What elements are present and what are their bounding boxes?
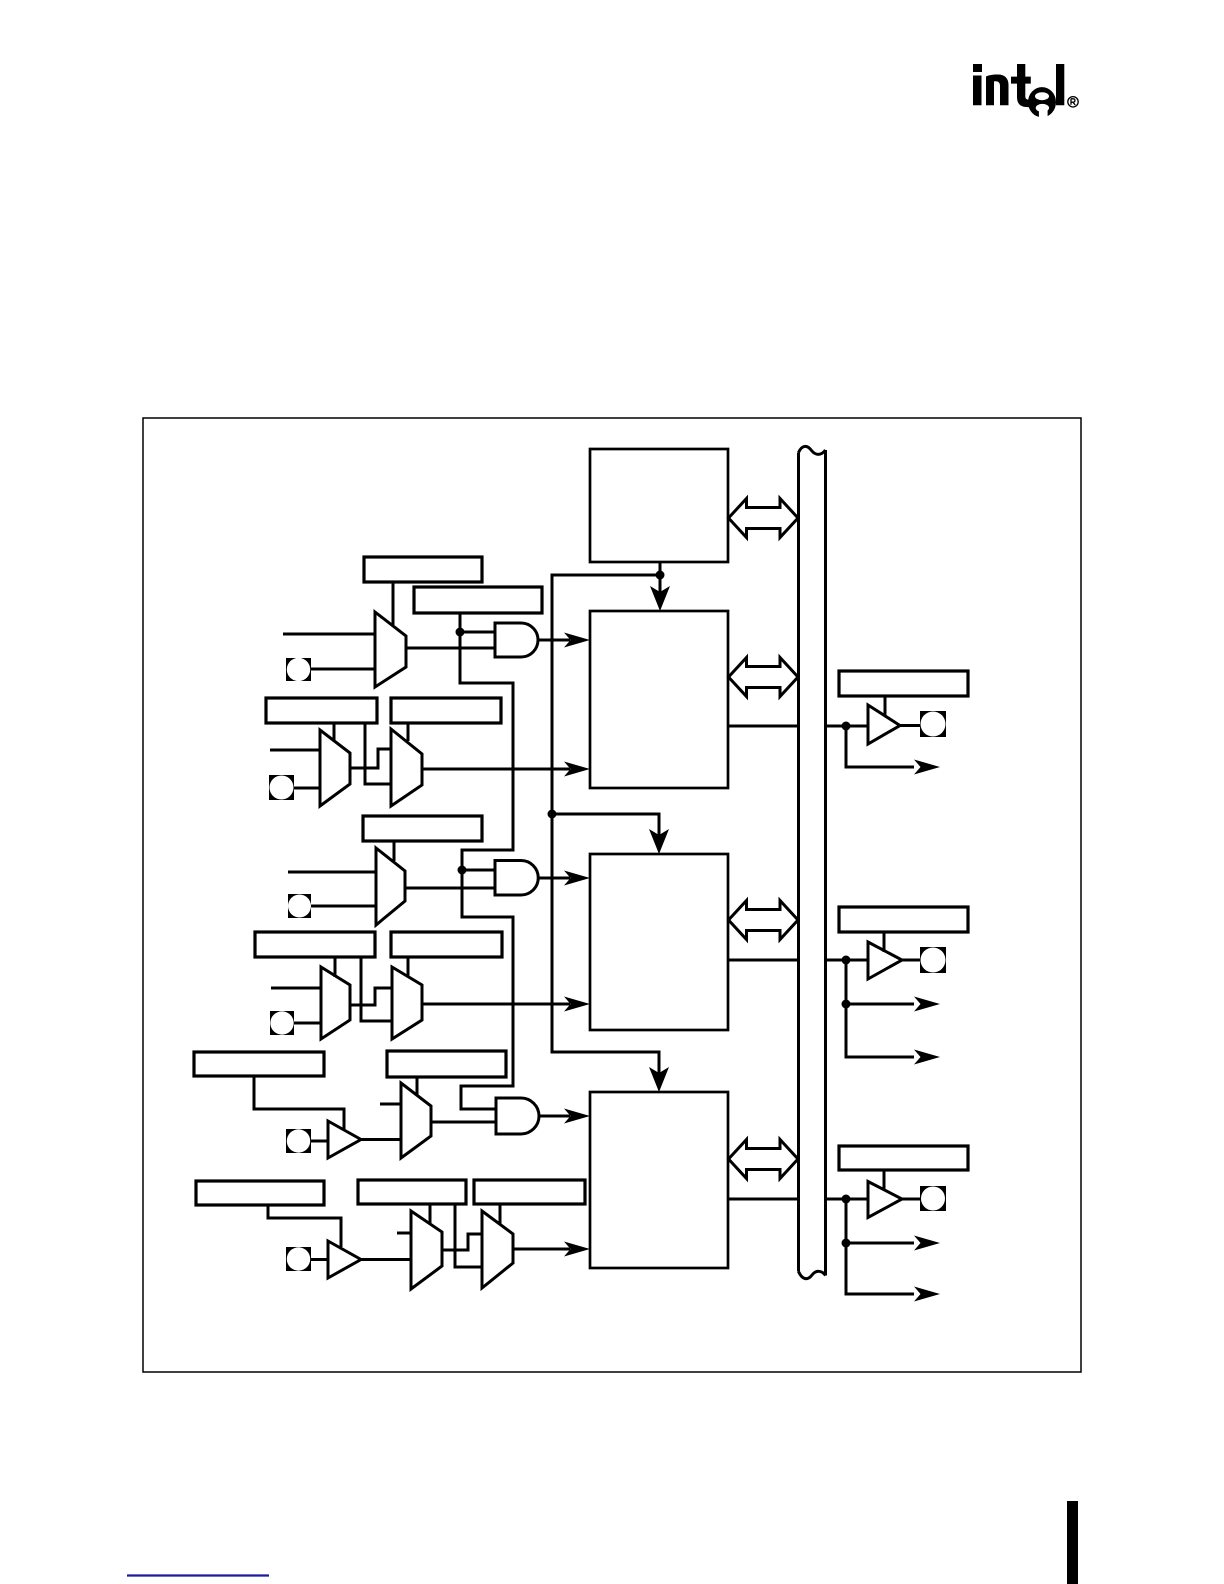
arrowhead — [914, 760, 940, 775]
intel logo — [973, 64, 1064, 119]
mux 5 — [321, 967, 350, 1039]
register H (row3 left) — [194, 1052, 324, 1076]
footer black bar — [1067, 1501, 1078, 1584]
mux 3 — [391, 729, 422, 806]
wire register C to mux2 — [333, 723, 336, 741]
wire AND2 out to box3 — [538, 877, 570, 880]
arrowhead — [649, 1067, 669, 1092]
registered trademark symbol — [1068, 97, 1078, 107]
footer rule (blue) — [127, 1574, 269, 1576]
wire buffer right row1 to pin — [900, 724, 920, 727]
register E (row2 gate select) — [363, 816, 482, 841]
wire register F to mux6 lower — [361, 957, 392, 1021]
arrowhead — [914, 997, 940, 1012]
wire row2 branch arrow upper — [846, 1003, 914, 1006]
wire row1 branch arrow — [846, 726, 914, 767]
buffer left row4 — [328, 1241, 361, 1278]
wire clock trunk — [552, 575, 660, 1075]
pin symbol 4 — [270, 1011, 294, 1035]
wire pin6 to buffer — [311, 1258, 328, 1261]
pin symbol right 3 — [920, 1186, 946, 1211]
wire mux1 out to AND1 — [406, 647, 495, 650]
bus bidirectional arrow 2 — [729, 658, 799, 697]
wire row2 branch down — [846, 960, 914, 1057]
wire pin3 to mux4 — [311, 905, 376, 908]
pin symbol right 1 — [920, 711, 946, 737]
junction dot — [842, 1239, 851, 1248]
buffer right row3 — [868, 1182, 902, 1218]
wire box3 to bus — [728, 959, 798, 962]
junction dot — [458, 866, 467, 875]
wire bus to buffer right row2 — [825, 959, 868, 962]
arrowhead — [564, 871, 590, 886]
arrowhead — [914, 1236, 940, 1251]
wire mux9 out to box4 — [513, 1248, 570, 1251]
wire clock to box3 — [552, 814, 659, 837]
register I (row3 mid) — [387, 1051, 506, 1077]
wire buffer right row2 to pin — [902, 959, 920, 962]
wire register H step to buffer — [254, 1076, 344, 1130]
wire pin1 to mux1 — [311, 668, 375, 671]
timer block box 2 — [590, 611, 728, 788]
mux 2 — [320, 730, 350, 806]
junction dot — [842, 1195, 851, 1204]
buffer right row1 — [868, 705, 900, 744]
register R1 (row1 output control) — [839, 671, 968, 696]
buffer left row3 — [328, 1121, 361, 1158]
wire box2 to bus — [728, 725, 798, 728]
register C (row1 left) — [266, 698, 377, 723]
wire R1 enable to buffer — [884, 696, 887, 716]
wire register K step to buffer — [268, 1205, 341, 1247]
pin symbol 5 — [286, 1129, 311, 1153]
wire register L to mux9 lower — [455, 1204, 482, 1267]
AND gate 1 — [495, 623, 538, 657]
wire box4 to bus — [728, 1198, 798, 1201]
mux 1 — [375, 612, 406, 687]
mux 7 — [401, 1083, 431, 1158]
diagram frame — [143, 418, 1081, 1372]
wire mux2 out jog to mux3 — [350, 749, 391, 768]
wire input line row1 lower — [270, 749, 320, 752]
pin symbol 3 — [288, 894, 311, 918]
junction dot — [842, 1000, 851, 1009]
junction dot — [456, 628, 465, 637]
wire register M to mux9 — [499, 1204, 502, 1224]
arrowhead — [564, 1109, 590, 1124]
wire AND1 out to box2 — [538, 639, 570, 642]
arrowhead — [649, 829, 669, 854]
bus bidirectional arrow 1 — [729, 499, 799, 538]
wire input line row1 upper — [283, 633, 375, 636]
mux 8 — [411, 1211, 442, 1289]
counter register box (top) — [590, 449, 728, 562]
data bus — [799, 446, 826, 1278]
wire stub mux7 upper input — [380, 1103, 401, 1106]
wire buffer out to mux8 — [361, 1258, 411, 1261]
bus bidirectional arrow 3 — [729, 901, 799, 940]
pin symbol 1 — [286, 658, 311, 681]
register D (row1 mid) — [391, 698, 501, 723]
wire register E to mux4 — [393, 841, 396, 861]
wire stub mux8 upper input — [397, 1232, 411, 1235]
wire register F to mux5 — [334, 957, 337, 977]
wire input line row2 upper — [288, 871, 376, 874]
register K (row4 left) — [196, 1181, 324, 1205]
timer block box 4 — [590, 1092, 728, 1268]
wire pin4 to mux5 — [294, 1022, 321, 1025]
wire pin2 to mux2 — [294, 787, 320, 790]
junction dot — [656, 571, 665, 580]
wire buffer right row3 to pin — [902, 1198, 920, 1201]
wire register I to mux7 — [416, 1077, 419, 1095]
arrowhead — [914, 1050, 940, 1065]
wire pin5 to buffer — [311, 1140, 328, 1143]
buffer right row2 — [868, 942, 902, 979]
wire mux5 out jog to mux6 — [350, 988, 392, 1005]
register R2 (row2 output control) — [839, 907, 968, 932]
arrowhead — [564, 633, 590, 648]
register A (row1 gate select) — [364, 557, 482, 582]
arrowhead — [564, 1242, 590, 1257]
register M (row4 right) — [474, 1180, 585, 1204]
wire register D to mux3 — [407, 723, 410, 741]
arrowhead — [650, 586, 670, 611]
wire register L to mux8 — [429, 1204, 432, 1224]
wire AND2 top tap — [462, 869, 495, 872]
wire register A to mux1 — [392, 582, 395, 625]
wire AND3 out to box4 — [539, 1115, 570, 1118]
pin symbol right 2 — [920, 947, 946, 973]
wire mux3 out to box2 — [422, 768, 570, 771]
wire mux8 out jog to mux9 — [442, 1234, 482, 1250]
mux 4 — [376, 848, 405, 925]
wire mux7 out to AND3 — [431, 1121, 496, 1124]
pin symbol 6 — [286, 1247, 311, 1271]
wire buffer out to mux7 — [361, 1138, 401, 1141]
arrowhead — [564, 997, 590, 1012]
wire R3 enable to buffer — [883, 1170, 886, 1190]
wire R2 enable to buffer — [883, 932, 886, 952]
wire bus to buffer right row3 — [825, 1198, 868, 1201]
timer block box 3 — [590, 854, 728, 1030]
register R3 (row3 output control) — [839, 1146, 968, 1170]
arrowhead — [564, 762, 590, 777]
wire mux4 out to AND2 — [405, 887, 495, 890]
mux 9 — [482, 1211, 513, 1288]
register L (row4 mid) — [358, 1180, 466, 1204]
junction dot — [842, 722, 851, 731]
register G (row2 mid) — [391, 932, 502, 957]
register F (row2 left) — [255, 932, 375, 957]
wire AND1 top tap — [460, 631, 495, 634]
wire row3 branch arrow upper — [846, 1242, 914, 1245]
mux 6 — [392, 967, 422, 1039]
wire row3 branch down — [846, 1199, 914, 1294]
wire box1 to box2 clock — [659, 562, 662, 594]
bus bidirectional arrow 4 — [729, 1140, 799, 1179]
wire mux6 out to box3 — [422, 1003, 570, 1006]
wire bus to buffer right row1 — [825, 725, 868, 728]
junction dot — [548, 810, 557, 819]
AND gate 2 — [495, 861, 538, 896]
register B (row1 control) — [414, 587, 542, 613]
junction dot — [842, 956, 851, 965]
wire register G to mux6 — [407, 957, 410, 977]
arrowhead — [914, 1287, 940, 1302]
wire input line row2 lower — [271, 987, 321, 990]
AND gate 3 — [496, 1098, 539, 1134]
wire register B zigzag feed — [460, 613, 513, 1109]
wire register C to mux3 lower — [365, 723, 391, 784]
pin symbol 2 — [269, 775, 294, 800]
